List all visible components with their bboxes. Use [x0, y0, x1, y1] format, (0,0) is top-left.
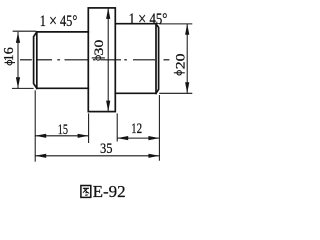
svg-text:1 × 45°: 1 × 45°	[40, 11, 78, 31]
svg-text:E-92: E-92	[93, 182, 126, 201]
svg-text:30: 30	[92, 40, 106, 56]
svg-text:15: 15	[58, 122, 68, 138]
svg-text:20: 20	[173, 54, 187, 70]
svg-text:16: 16	[1, 47, 16, 61]
svg-text:12: 12	[131, 121, 142, 137]
svg-text:1 × 45°: 1 × 45°	[129, 9, 168, 29]
svg-text:35: 35	[100, 141, 113, 157]
